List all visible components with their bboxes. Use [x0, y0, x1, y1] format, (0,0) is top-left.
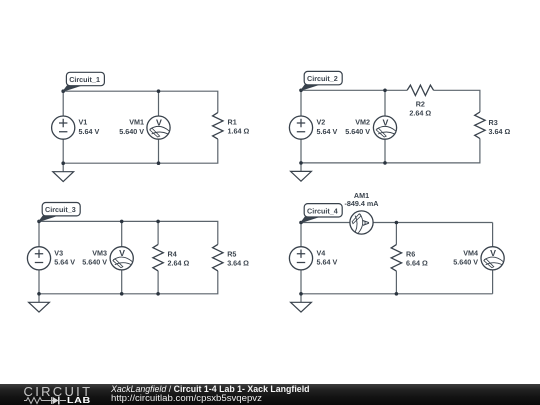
- svg-text:R5: R5: [227, 249, 236, 258]
- svg-text:5.64 V: 5.64 V: [79, 127, 100, 136]
- svg-text:VM3: VM3: [92, 248, 107, 257]
- svg-text:5.640 V: 5.640 V: [453, 258, 478, 267]
- svg-text:R3: R3: [489, 118, 498, 127]
- svg-text:R1: R1: [228, 118, 237, 127]
- svg-text:Circuit_1: Circuit_1: [69, 75, 100, 84]
- svg-text:3.64 Ω: 3.64 Ω: [227, 258, 249, 267]
- svg-text:VM1: VM1: [129, 118, 144, 127]
- svg-text:5.64 V: 5.64 V: [317, 258, 338, 267]
- svg-text:R4: R4: [168, 249, 177, 258]
- svg-text:3.64 Ω: 3.64 Ω: [489, 127, 511, 136]
- svg-text:5.640 V: 5.640 V: [119, 127, 144, 136]
- svg-text:5.64 V: 5.64 V: [317, 127, 338, 136]
- svg-text:Circuit_4: Circuit_4: [307, 206, 338, 215]
- svg-text:R2: R2: [416, 99, 425, 108]
- svg-text:2.64 Ω: 2.64 Ω: [409, 109, 431, 118]
- svg-text:V1: V1: [79, 118, 88, 127]
- svg-text:V4: V4: [317, 248, 326, 257]
- svg-text:R6: R6: [406, 249, 415, 258]
- svg-text:2.64 Ω: 2.64 Ω: [168, 258, 190, 267]
- svg-text:VM2: VM2: [355, 118, 370, 127]
- svg-text:V2: V2: [317, 118, 326, 127]
- svg-text:5.640 V: 5.640 V: [82, 258, 107, 267]
- svg-text:Circuit_3: Circuit_3: [45, 205, 76, 214]
- svg-text:5.64 V: 5.64 V: [54, 258, 75, 267]
- svg-text:-849.4 mA: -849.4 mA: [345, 199, 379, 208]
- svg-text:5.640 V: 5.640 V: [345, 127, 370, 136]
- svg-text:V3: V3: [54, 248, 63, 257]
- svg-text:6.64 Ω: 6.64 Ω: [406, 258, 428, 267]
- svg-text:1.64 Ω: 1.64 Ω: [228, 127, 250, 136]
- svg-text:Circuit_2: Circuit_2: [307, 74, 338, 83]
- svg-text:VM4: VM4: [463, 248, 478, 257]
